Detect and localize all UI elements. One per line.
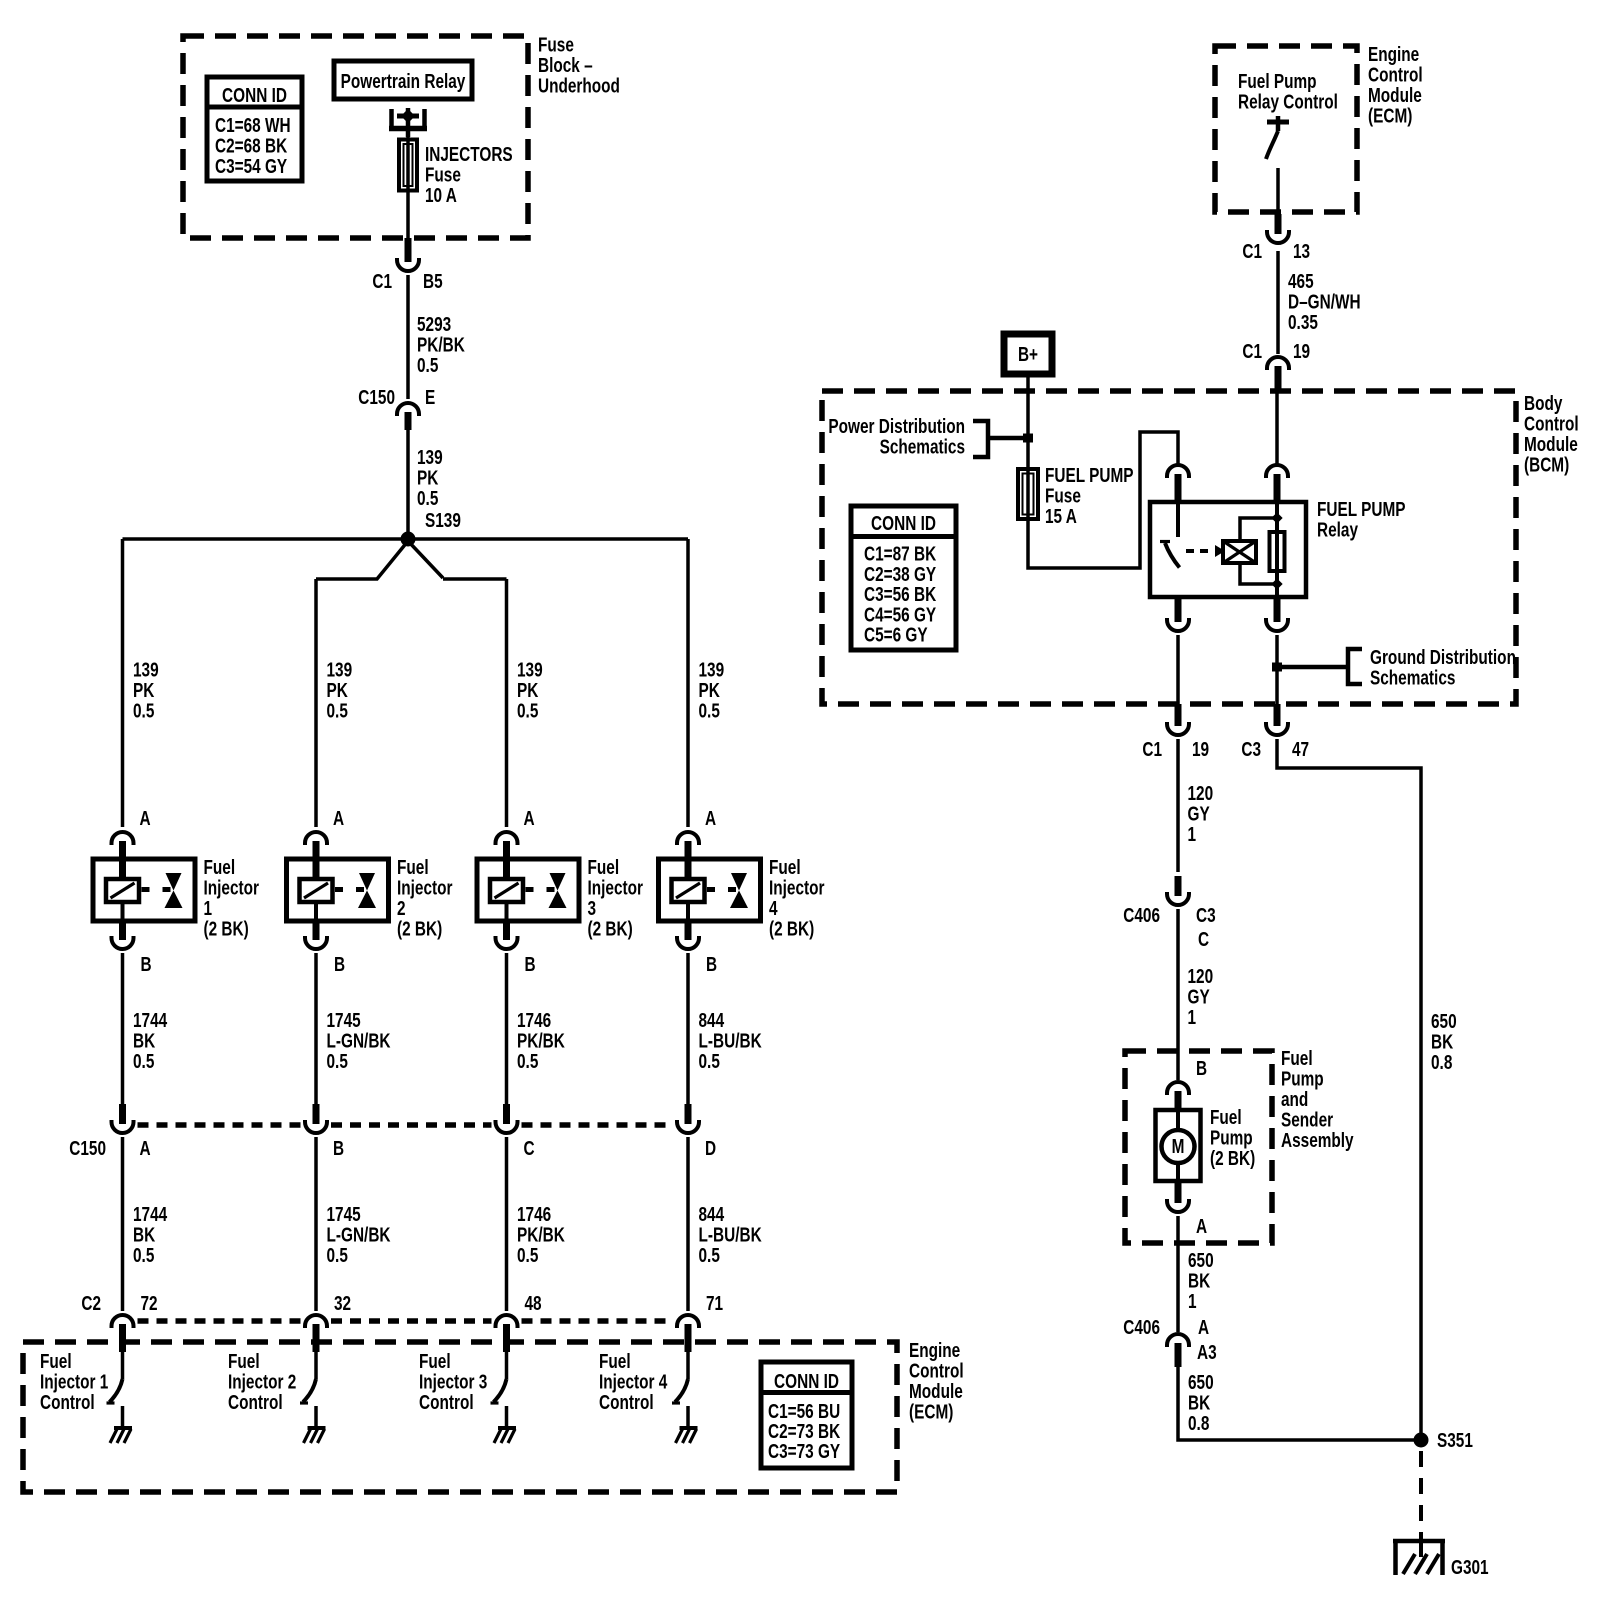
svg-text:C3: C3 xyxy=(1196,904,1216,927)
wire fuse to C1 connector xyxy=(406,192,410,238)
wire label 844 L-BU/BK 0.5 upper branch 4 xyxy=(699,1009,762,1073)
dashed relay actuation link xyxy=(1186,549,1214,553)
svg-text:5293: 5293 xyxy=(417,313,451,336)
label pin 32 C2 row xyxy=(334,1292,351,1315)
svg-text:Fuel: Fuel xyxy=(1281,1047,1313,1070)
wire C150 row to C2 row branch 3 xyxy=(505,1137,509,1311)
svg-text:Injector: Injector xyxy=(588,876,644,899)
label pin A injector 2 xyxy=(333,807,344,830)
wire label 650 BK 0.8 right rail xyxy=(1431,1010,1457,1074)
label pin A fuel pump xyxy=(1196,1215,1207,1238)
connector C2 row branch 1 xyxy=(112,1315,134,1352)
wire branch 3 vertical xyxy=(505,579,509,827)
connector relay pin coil bottom xyxy=(1266,597,1288,631)
label Fuel Injector 3 Control xyxy=(419,1350,487,1414)
svg-text:Engine: Engine xyxy=(1368,43,1419,66)
svg-text:BK: BK xyxy=(133,1223,155,1246)
wire label 465 D-GN/WH 0.35 xyxy=(1288,270,1361,334)
fuel injector 2 symbol xyxy=(287,859,389,938)
svg-text:C1: C1 xyxy=(372,270,392,293)
wire label 139 PK 0.5 branch 2 xyxy=(327,658,353,722)
svg-text:1746: 1746 xyxy=(517,1203,551,1226)
dashed connector line C2 row xyxy=(138,1318,674,1324)
svg-text:650: 650 xyxy=(1188,1249,1214,1272)
label pin A injector 4 xyxy=(705,807,716,830)
fuse INJECTORS 10 A xyxy=(399,137,417,192)
svg-text:PK: PK xyxy=(699,679,720,702)
label 19 at BCM xyxy=(1293,340,1310,363)
wire branch 4 vertical xyxy=(686,539,690,827)
wire C150 row to C2 row branch 2 xyxy=(314,1137,318,1311)
svg-text:Injector: Injector xyxy=(204,876,260,899)
svg-text:0.5: 0.5 xyxy=(417,487,438,510)
wire C406 to S351 xyxy=(1178,1367,1414,1440)
svg-text:Schematics: Schematics xyxy=(880,435,965,458)
svg-text:C3: C3 xyxy=(1241,738,1261,761)
svg-text:15 A: 15 A xyxy=(1045,505,1077,528)
svg-text:Fuel: Fuel xyxy=(397,856,429,879)
connector C2 row branch 3 xyxy=(496,1315,518,1352)
label pin B injector 1 xyxy=(141,953,152,976)
label pin letter B C150 row xyxy=(333,1137,344,1160)
wire B+ down to fuse xyxy=(1026,377,1030,467)
svg-text:B: B xyxy=(706,953,717,976)
svg-text:PK/BK: PK/BK xyxy=(517,1223,565,1246)
svg-text:0.5: 0.5 xyxy=(133,1050,154,1073)
label pin letter A C150 row xyxy=(140,1137,151,1160)
label Fuel Injector 2 (2 BK) xyxy=(397,856,453,940)
svg-text:465: 465 xyxy=(1288,270,1314,293)
svg-text:S139: S139 xyxy=(425,509,461,532)
svg-text:Control: Control xyxy=(40,1391,95,1414)
label pin A3 xyxy=(1197,1341,1217,1364)
svg-text:A: A xyxy=(705,807,716,830)
svg-text:0.5: 0.5 xyxy=(699,699,720,722)
svg-text:139: 139 xyxy=(417,446,443,469)
connector ID table BCM xyxy=(851,506,956,650)
svg-text:C1: C1 xyxy=(1142,738,1162,761)
wire label 844 L-BU/BK 0.5 lower branch 4 xyxy=(699,1203,762,1267)
label C3 BCM bottom xyxy=(1241,738,1261,761)
svg-text:Module: Module xyxy=(909,1380,963,1403)
svg-text:BK: BK xyxy=(1431,1030,1453,1053)
bracket power distribution xyxy=(973,421,1023,457)
label Fuel Injector 1 Control xyxy=(40,1350,108,1414)
svg-text:(ECM): (ECM) xyxy=(1368,104,1412,127)
wire label 1746 PK/BK 0.5 lower branch 3 xyxy=(517,1203,565,1267)
wire relay coil top link xyxy=(1240,518,1277,541)
svg-text:C2=68 BK: C2=68 BK xyxy=(215,134,287,157)
svg-text:Module: Module xyxy=(1368,84,1422,107)
svg-text:Fuel: Fuel xyxy=(599,1350,631,1373)
svg-text:B: B xyxy=(525,953,536,976)
svg-text:and: and xyxy=(1281,1088,1308,1111)
svg-text:(2 BK): (2 BK) xyxy=(769,917,814,940)
svg-text:B: B xyxy=(141,953,152,976)
label pin A lower xyxy=(1198,1316,1209,1339)
svg-text:C3=54 GY: C3=54 GY xyxy=(215,155,287,178)
svg-text:S351: S351 xyxy=(1437,1429,1473,1452)
svg-text:139: 139 xyxy=(517,658,543,681)
fuse block underhood box xyxy=(183,36,528,238)
svg-text:Fuel: Fuel xyxy=(228,1350,260,1373)
svg-text:CONN ID: CONN ID xyxy=(774,1370,839,1393)
dashed connector line C150 row xyxy=(138,1122,674,1128)
wire label 1745 L-GN/BK 0.5 lower branch 2 xyxy=(327,1203,391,1267)
svg-text:GY: GY xyxy=(1188,985,1210,1008)
svg-text:Fuse: Fuse xyxy=(425,163,461,186)
svg-text:PK: PK xyxy=(133,679,154,702)
svg-text:B: B xyxy=(334,953,345,976)
connector ID table ECM xyxy=(761,1362,852,1468)
wire label 120 GY 1 lower xyxy=(1188,965,1214,1029)
svg-text:C3=73 GY: C3=73 GY xyxy=(768,1440,840,1463)
svg-text:FUEL PUMP: FUEL PUMP xyxy=(1045,464,1134,487)
connector ID table fuse block xyxy=(207,77,302,181)
connector C1 B5 xyxy=(397,238,419,271)
connector B injector 4 xyxy=(677,938,699,949)
junction power distribution xyxy=(1023,434,1033,443)
svg-text:48: 48 xyxy=(525,1292,542,1315)
svg-text:1745: 1745 xyxy=(327,1203,361,1226)
label G301 xyxy=(1451,1556,1489,1579)
label C406 upper xyxy=(1123,904,1160,927)
label pin letter D C150 row xyxy=(705,1137,716,1160)
svg-text:139: 139 xyxy=(699,658,725,681)
wire label 1746 PK/BK 0.5 upper branch 3 xyxy=(517,1009,565,1073)
label C150 row xyxy=(69,1137,106,1160)
svg-text:Injector 1: Injector 1 xyxy=(40,1370,108,1393)
svg-text:0.5: 0.5 xyxy=(699,1244,720,1267)
wire label 139 PK 0.5 branch 1 xyxy=(133,658,159,722)
wire C1 to C150 xyxy=(406,275,410,399)
svg-text:(BCM): (BCM) xyxy=(1524,453,1569,476)
label pin 71 C2 row xyxy=(706,1292,723,1315)
wire branch 1 vertical xyxy=(121,539,125,827)
wire relay coil out to BCM bottom xyxy=(1275,635,1279,704)
svg-text:0.5: 0.5 xyxy=(417,354,438,377)
wire C150 row to C2 row branch 1 xyxy=(121,1137,125,1311)
label C150 xyxy=(358,386,395,409)
svg-text:19: 19 xyxy=(1293,340,1310,363)
label pin B injector 4 xyxy=(706,953,717,976)
wire injector 4 to C150 row xyxy=(686,953,690,1104)
switch fuel injector 1 driver xyxy=(107,1379,123,1427)
dashed wire S351 to ground xyxy=(1419,1451,1423,1541)
label Fuel Pump and Sender Assembly xyxy=(1281,1047,1354,1152)
svg-text:Control: Control xyxy=(909,1359,964,1382)
svg-text:Engine: Engine xyxy=(909,1339,960,1362)
wire label 5293 PK/BK 0.5 xyxy=(417,313,465,377)
label C1 BCM bottom xyxy=(1142,738,1162,761)
svg-text:PK/BK: PK/BK xyxy=(517,1029,565,1052)
connector C1 19 xyxy=(1267,357,1289,391)
svg-text:120: 120 xyxy=(1188,965,1214,988)
svg-text:Relay Control: Relay Control xyxy=(1238,90,1338,113)
svg-text:PK/BK: PK/BK xyxy=(417,333,465,356)
label 47 BCM bottom xyxy=(1292,738,1309,761)
connector B injector 2 xyxy=(305,938,327,949)
label Body Control Module BCM xyxy=(1524,392,1579,476)
svg-text:L-GN/BK: L-GN/BK xyxy=(327,1029,391,1052)
label pin A injector 1 xyxy=(140,807,151,830)
svg-text:A: A xyxy=(1196,1215,1207,1238)
svg-text:(2 BK): (2 BK) xyxy=(397,917,442,940)
wire injector 2 to C150 row xyxy=(314,953,318,1104)
svg-text:0.5: 0.5 xyxy=(517,699,538,722)
svg-text:A3: A3 xyxy=(1197,1341,1217,1364)
wire C1 19 down to C406 xyxy=(1176,739,1180,872)
svg-text:B+: B+ xyxy=(1018,343,1038,366)
svg-text:C2=38 GY: C2=38 GY xyxy=(864,563,936,586)
switch fuel injector 3 driver xyxy=(491,1379,507,1427)
svg-text:Assembly: Assembly xyxy=(1281,1129,1354,1152)
svg-text:(ECM): (ECM) xyxy=(909,1400,953,1423)
battery feed B+ box xyxy=(1004,334,1052,374)
svg-text:Fuel: Fuel xyxy=(204,856,236,879)
svg-text:Pump: Pump xyxy=(1210,1126,1253,1149)
switch fuel injector 2 driver xyxy=(300,1379,316,1427)
svg-text:1: 1 xyxy=(204,897,213,920)
svg-text:Sender: Sender xyxy=(1281,1108,1333,1131)
svg-text:0.5: 0.5 xyxy=(327,1244,348,1267)
wire C2 row into ECM branch 3 xyxy=(505,1352,509,1379)
svg-text:844: 844 xyxy=(699,1203,725,1226)
label Fuel Pump (2 BK) xyxy=(1210,1106,1255,1170)
label pin C xyxy=(1198,928,1209,951)
wire relay coil bottom link xyxy=(1240,563,1277,584)
svg-text:C150: C150 xyxy=(358,386,395,409)
svg-text:0.5: 0.5 xyxy=(699,1050,720,1073)
svg-text:650: 650 xyxy=(1188,1371,1214,1394)
connector relay pin switch bottom xyxy=(1167,597,1189,631)
ground injector 1 driver xyxy=(110,1428,132,1443)
svg-text:C3=56 BK: C3=56 BK xyxy=(864,583,936,606)
splice S139 xyxy=(401,532,416,547)
svg-text:1746: 1746 xyxy=(517,1009,551,1032)
wire C150 row to C2 row branch 4 xyxy=(686,1137,690,1311)
wire relay switch out to BCM bottom xyxy=(1176,635,1180,704)
svg-text:A: A xyxy=(333,807,344,830)
wire C150 to S139 xyxy=(406,430,410,539)
svg-text:Block –: Block – xyxy=(538,54,593,77)
wire label 1744 BK 0.5 upper branch 1 xyxy=(133,1009,167,1073)
svg-text:Relay: Relay xyxy=(1317,518,1358,541)
svg-text:Injector 3: Injector 3 xyxy=(419,1370,487,1393)
svg-text:Control: Control xyxy=(1368,63,1423,86)
label Fuel Pump Relay Control xyxy=(1238,70,1338,113)
motor fuel pump xyxy=(1156,1110,1201,1181)
svg-text:Fuel: Fuel xyxy=(769,856,801,879)
connector C1 19 BCM bottom xyxy=(1167,704,1189,735)
wire bus horizontal xyxy=(123,537,689,541)
svg-text:Fuse: Fuse xyxy=(1045,484,1081,507)
svg-text:D: D xyxy=(705,1137,716,1160)
label FUEL PUMP Relay xyxy=(1317,498,1406,541)
svg-text:L-BU/BK: L-BU/BK xyxy=(699,1223,762,1246)
label 19 BCM bottom xyxy=(1192,738,1209,761)
ground G301 xyxy=(1393,1541,1445,1575)
label C1 top right xyxy=(1242,240,1262,263)
svg-text:650: 650 xyxy=(1431,1010,1457,1033)
svg-text:L-BU/BK: L-BU/BK xyxy=(699,1029,762,1052)
svg-text:Fuse: Fuse xyxy=(538,33,574,56)
svg-text:B: B xyxy=(333,1137,344,1160)
svg-text:C150: C150 xyxy=(69,1137,106,1160)
svg-text:1: 1 xyxy=(1188,1290,1197,1313)
label pin 48 C2 row xyxy=(525,1292,542,1315)
fuel injector 1 symbol xyxy=(93,859,195,938)
svg-text:C2: C2 xyxy=(81,1292,101,1315)
svg-text:BK: BK xyxy=(1188,1269,1210,1292)
svg-text:C5=6 GY: C5=6 GY xyxy=(864,624,928,647)
body control module box xyxy=(822,391,1516,704)
connector A injector 4 xyxy=(677,832,699,859)
svg-text:INJECTORS: INJECTORS xyxy=(425,143,513,166)
svg-text:C406: C406 xyxy=(1123,1316,1160,1339)
label INJECTORS Fuse 10 A xyxy=(425,143,513,207)
svg-text:C406: C406 xyxy=(1123,904,1160,927)
svg-text:Control: Control xyxy=(599,1391,654,1414)
wire label 1745 L-GN/BK 0.5 upper branch 2 xyxy=(327,1009,391,1073)
powertrain relay contact xyxy=(389,108,427,137)
svg-text:M: M xyxy=(1172,1135,1185,1158)
svg-text:139: 139 xyxy=(327,658,353,681)
svg-text:1: 1 xyxy=(1188,823,1197,846)
svg-text:Fuel: Fuel xyxy=(588,856,620,879)
label Fuel Injector 4 (2 BK) xyxy=(769,856,825,940)
svg-text:Fuel: Fuel xyxy=(1210,1106,1242,1129)
svg-text:0.8: 0.8 xyxy=(1188,1412,1209,1435)
junction relay coil top xyxy=(1271,512,1282,523)
label 13 xyxy=(1293,240,1310,263)
wire injector 3 to C150 row xyxy=(505,953,509,1104)
wire branch 2 vertical xyxy=(314,579,318,827)
connector fuel pump B xyxy=(1167,1082,1189,1110)
connector A injector 3 xyxy=(496,832,518,859)
svg-text:B: B xyxy=(1196,1057,1207,1080)
svg-text:A: A xyxy=(140,1137,151,1160)
svg-text:0.8: 0.8 xyxy=(1431,1051,1452,1074)
label Fuse Block - Underhood xyxy=(538,33,620,97)
connector C150 row pin B xyxy=(305,1104,327,1133)
wire label 650 BK 1 xyxy=(1188,1249,1214,1313)
svg-text:0.5: 0.5 xyxy=(327,1050,348,1073)
svg-text:1744: 1744 xyxy=(133,1009,167,1032)
ground injector 2 driver xyxy=(304,1428,326,1443)
label B5 xyxy=(423,270,443,293)
svg-text:GY: GY xyxy=(1188,802,1210,825)
svg-text:120: 120 xyxy=(1188,782,1214,805)
label C1 xyxy=(372,270,392,293)
wire label 650 BK 0.8 lower xyxy=(1188,1371,1214,1435)
label pin B injector 2 xyxy=(334,953,345,976)
svg-text:C4=56 GY: C4=56 GY xyxy=(864,603,936,626)
svg-text:0.35: 0.35 xyxy=(1288,311,1318,334)
svg-text:Power Distribution: Power Distribution xyxy=(828,415,965,438)
svg-text:B5: B5 xyxy=(423,270,443,293)
connector C150 row pin D xyxy=(677,1104,699,1133)
label Fuel Injector 4 Control xyxy=(599,1350,667,1414)
relay coil xyxy=(1215,541,1256,563)
svg-text:19: 19 xyxy=(1192,738,1209,761)
svg-text:1744: 1744 xyxy=(133,1203,167,1226)
engine control module box xyxy=(23,1342,897,1492)
svg-text:(2 BK): (2 BK) xyxy=(588,917,633,940)
svg-text:BK: BK xyxy=(133,1029,155,1052)
label pin 72 C2 row xyxy=(141,1292,158,1315)
label C1 at BCM xyxy=(1242,340,1262,363)
svg-text:CONN ID: CONN ID xyxy=(871,512,936,535)
svg-text:Fuel Pump: Fuel Pump xyxy=(1238,70,1317,93)
svg-text:Injector: Injector xyxy=(397,876,453,899)
svg-text:Control: Control xyxy=(419,1391,474,1414)
svg-text:10 A: 10 A xyxy=(425,184,457,207)
svg-text:71: 71 xyxy=(706,1292,723,1315)
fuel injector 3 symbol xyxy=(477,859,579,938)
label E xyxy=(425,386,435,409)
svg-text:E: E xyxy=(425,386,435,409)
svg-text:1: 1 xyxy=(1188,1006,1197,1029)
svg-text:C: C xyxy=(524,1137,535,1160)
svg-text:844: 844 xyxy=(699,1009,725,1032)
svg-text:3: 3 xyxy=(588,897,597,920)
svg-text:PK: PK xyxy=(327,679,348,702)
svg-text:72: 72 xyxy=(141,1292,158,1315)
wire C2 row into ECM branch 1 xyxy=(121,1352,125,1379)
connector B injector 1 xyxy=(112,938,134,949)
label FUEL PUMP Fuse 15 A xyxy=(1045,464,1134,528)
wire label 139 PK 0.5 branch 4 xyxy=(699,658,725,722)
wire C1 13 to C1 19 xyxy=(1276,251,1280,354)
label Power Distribution Schematics xyxy=(828,415,965,458)
svg-text:CONN ID: CONN ID xyxy=(222,84,287,107)
svg-text:C1: C1 xyxy=(1242,340,1262,363)
svg-text:A: A xyxy=(140,807,151,830)
connector C1 13 xyxy=(1267,214,1289,243)
connector relay pin switch top xyxy=(1167,465,1189,502)
svg-text:G301: G301 xyxy=(1451,1556,1489,1579)
label Engine Control Module ECM xyxy=(909,1339,964,1423)
ground injector 3 driver xyxy=(494,1428,516,1443)
svg-text:C: C xyxy=(1198,928,1209,951)
relay FUEL PUMP box xyxy=(1150,502,1306,597)
svg-text:PK: PK xyxy=(417,466,438,489)
switch fuel pump relay driver xyxy=(1266,116,1289,159)
svg-text:47: 47 xyxy=(1292,738,1309,761)
connector B injector 3 xyxy=(496,938,518,949)
relay switch contact xyxy=(1160,502,1180,568)
svg-text:1745: 1745 xyxy=(327,1009,361,1032)
svg-text:C1=87 BK: C1=87 BK xyxy=(864,542,936,565)
svg-text:139: 139 xyxy=(133,658,159,681)
label C406 lower xyxy=(1123,1316,1160,1339)
svg-text:Injector 4: Injector 4 xyxy=(599,1370,667,1393)
label Engine Control Module ECM top xyxy=(1368,43,1423,127)
svg-text:Schematics: Schematics xyxy=(1370,666,1455,689)
svg-text:0.5: 0.5 xyxy=(133,699,154,722)
svg-text:Control: Control xyxy=(1524,412,1579,435)
junction ground distribution xyxy=(1272,663,1282,672)
label S139 xyxy=(425,509,461,532)
svg-text:FUEL PUMP: FUEL PUMP xyxy=(1317,498,1406,521)
svg-text:Powertrain Relay: Powertrain Relay xyxy=(341,70,466,93)
label C2 row xyxy=(81,1292,101,1315)
svg-text:13: 13 xyxy=(1293,240,1310,263)
svg-text:4: 4 xyxy=(769,897,778,920)
svg-text:Ground Distribution: Ground Distribution xyxy=(1370,646,1516,669)
wire label 120 GY 1 upper xyxy=(1188,782,1214,846)
